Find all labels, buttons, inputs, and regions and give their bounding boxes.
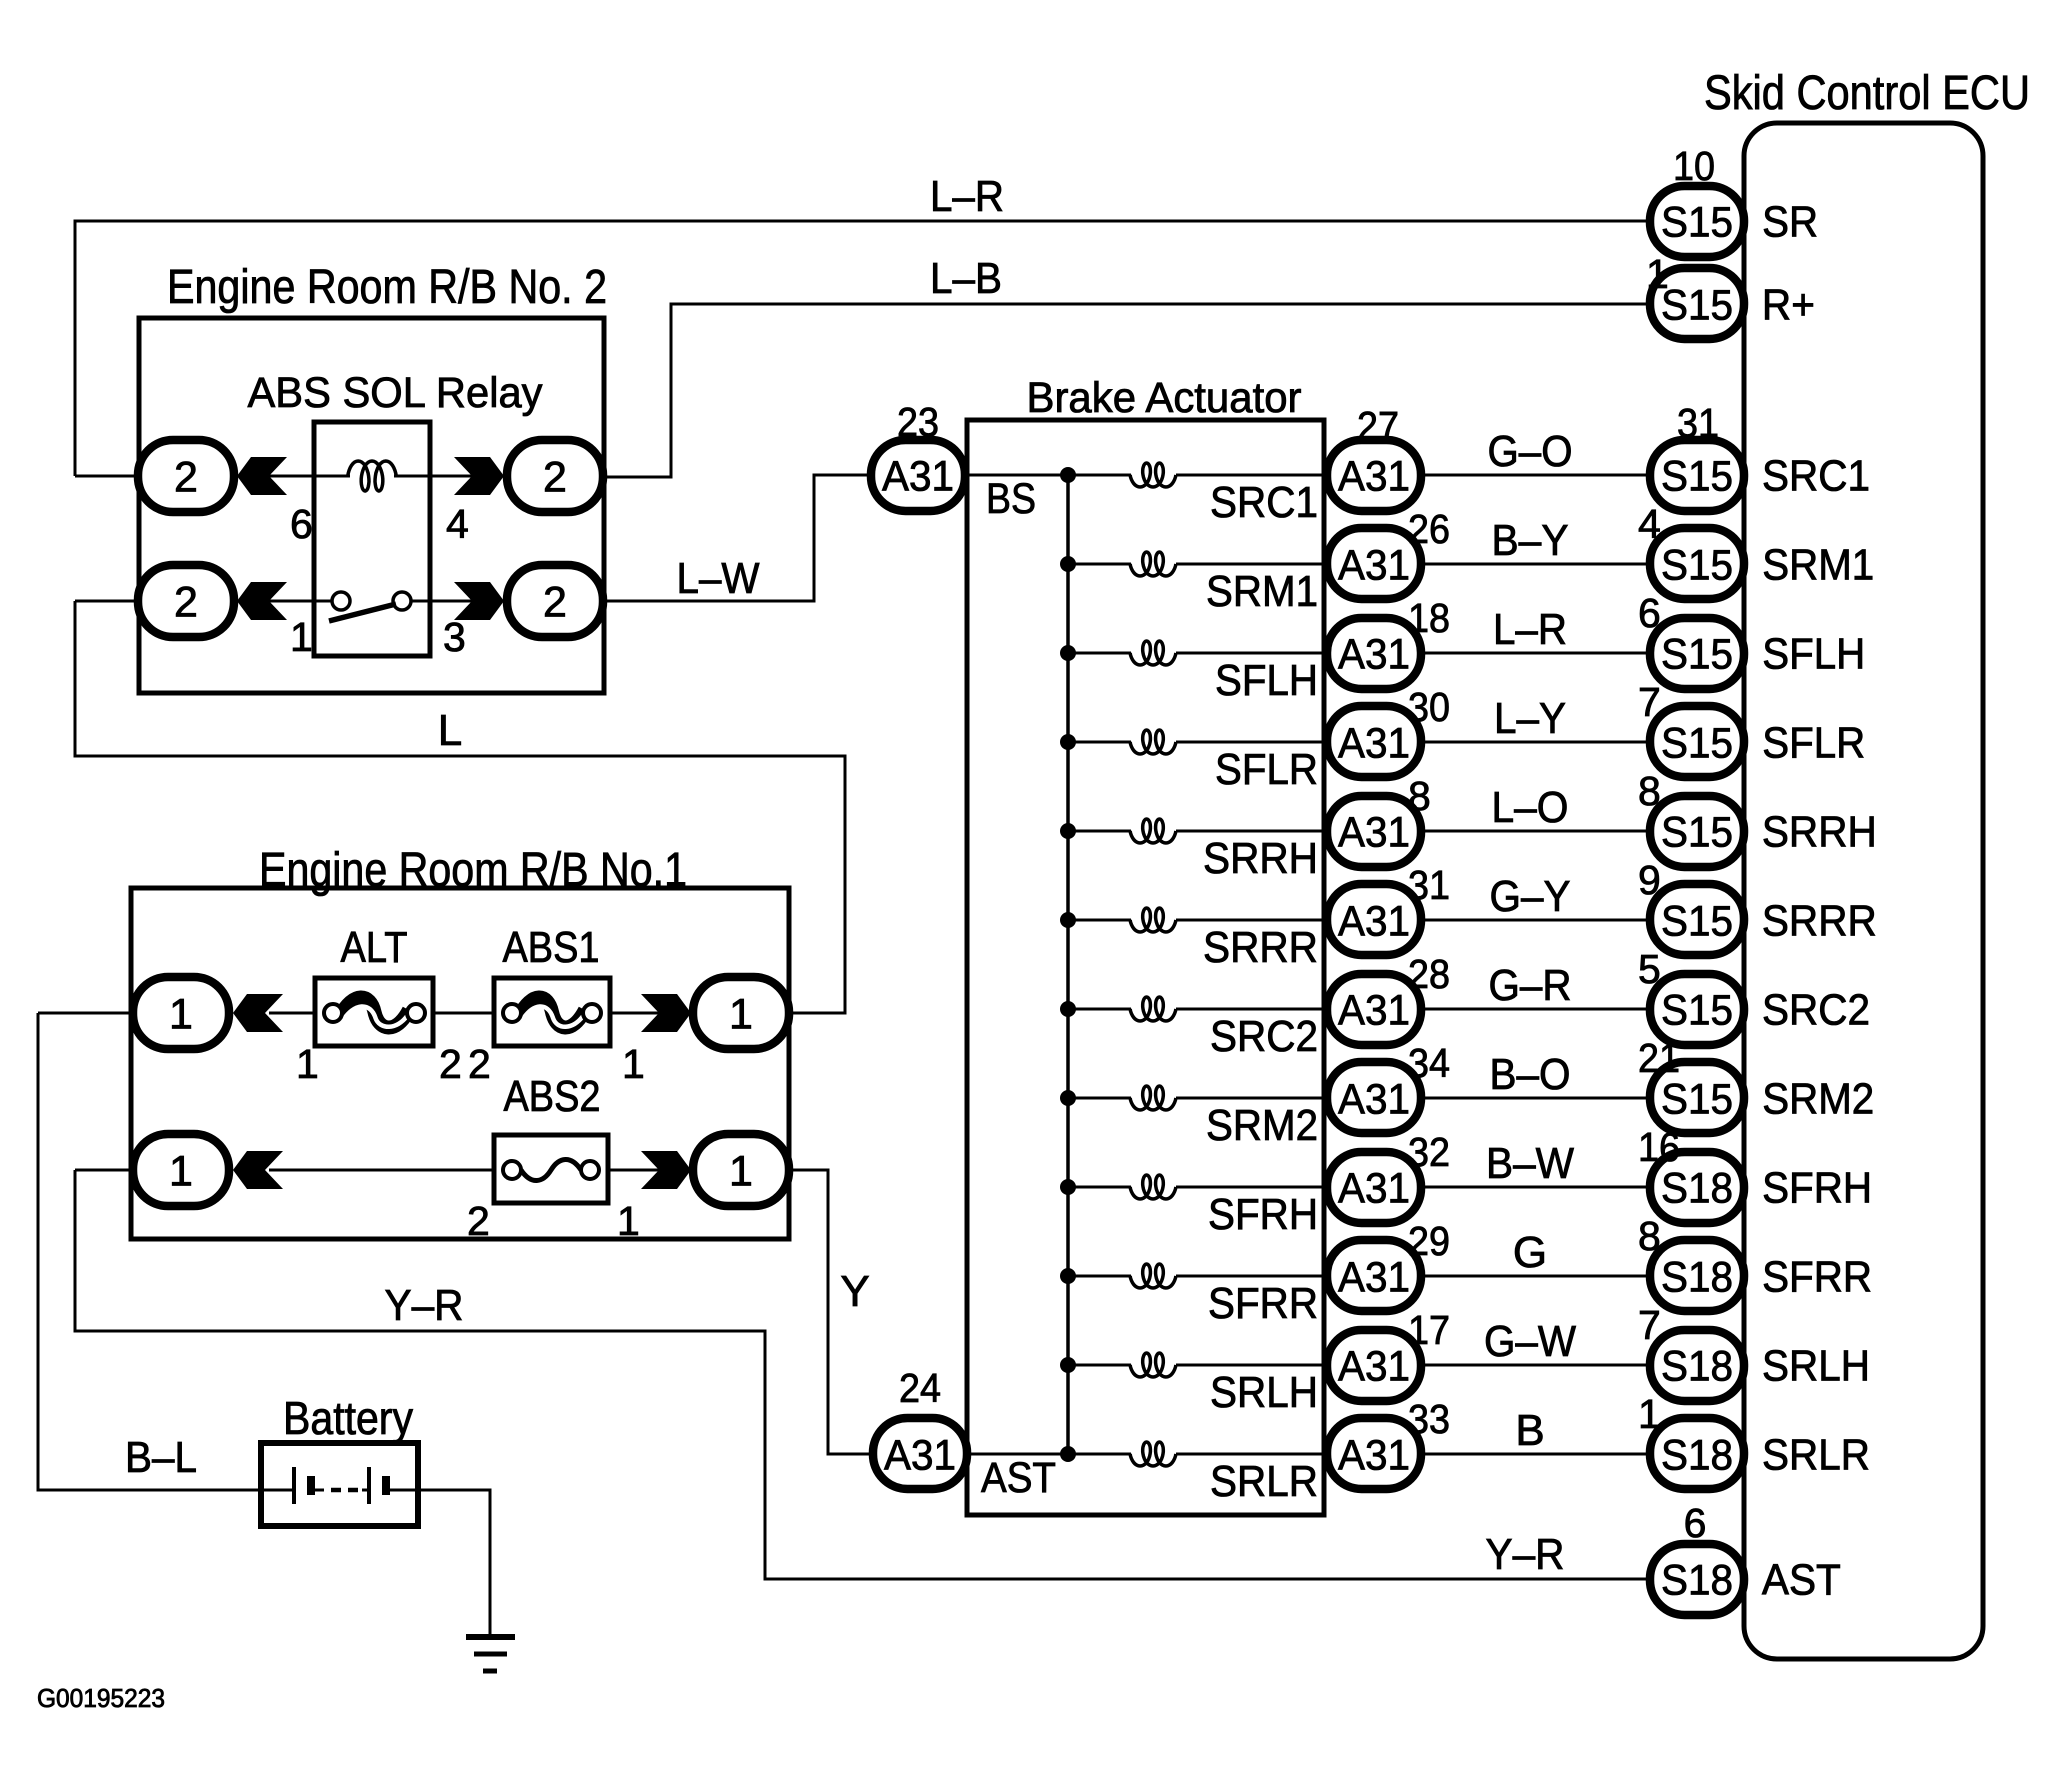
svg-text:A31: A31 <box>1338 541 1410 589</box>
svg-text:2: 2 <box>174 453 198 501</box>
svg-text:10: 10 <box>1673 143 1715 189</box>
svg-text:6: 6 <box>290 501 313 547</box>
svg-text:S18: S18 <box>1661 1342 1733 1390</box>
svg-text:28: 28 <box>1408 951 1450 997</box>
svg-text:32: 32 <box>1408 1129 1450 1175</box>
svg-text:6: 6 <box>1638 590 1661 636</box>
svg-text:Battery: Battery <box>283 1392 413 1444</box>
svg-text:A31: A31 <box>884 1431 956 1479</box>
svg-text:A31: A31 <box>1338 808 1410 856</box>
svg-text:7: 7 <box>1638 1302 1661 1348</box>
svg-text:SFRR: SFRR <box>1762 1253 1872 1302</box>
svg-text:SFRH: SFRH <box>1762 1164 1872 1213</box>
svg-text:27: 27 <box>1357 403 1399 449</box>
svg-text:1: 1 <box>1638 1391 1661 1437</box>
svg-text:Y–R: Y–R <box>385 1281 464 1330</box>
svg-text:1: 1 <box>729 990 753 1038</box>
svg-text:1: 1 <box>622 1041 645 1087</box>
svg-text:1: 1 <box>296 1041 319 1087</box>
svg-text:3: 3 <box>443 614 466 660</box>
svg-text:17: 17 <box>1408 1307 1450 1353</box>
svg-text:A31: A31 <box>1338 1342 1410 1390</box>
svg-text:G–W: G–W <box>1484 1317 1576 1366</box>
svg-text:SRLH: SRLH <box>1210 1368 1318 1417</box>
svg-text:S15: S15 <box>1661 452 1733 500</box>
svg-text:SRRR: SRRR <box>1203 923 1318 972</box>
svg-text:L–O: L–O <box>1492 783 1569 832</box>
svg-text:2: 2 <box>468 1041 491 1087</box>
svg-text:B–O: B–O <box>1490 1050 1571 1099</box>
svg-text:SR: SR <box>1762 198 1818 247</box>
svg-text:SRLH: SRLH <box>1762 1342 1870 1391</box>
svg-text:24: 24 <box>899 1365 941 1411</box>
svg-text:ABS2: ABS2 <box>504 1072 601 1121</box>
svg-text:SFLH: SFLH <box>1215 656 1318 705</box>
svg-text:B: B <box>1515 1406 1544 1455</box>
svg-text:2: 2 <box>543 578 567 626</box>
svg-text:G–O: G–O <box>1488 427 1573 476</box>
svg-text:SFRR: SFRR <box>1208 1279 1318 1328</box>
svg-text:ALT: ALT <box>341 923 408 972</box>
svg-text:A31: A31 <box>882 452 954 500</box>
svg-text:4: 4 <box>1638 501 1661 547</box>
svg-text:23: 23 <box>897 399 939 445</box>
svg-text:Y: Y <box>840 1267 869 1316</box>
svg-text:A31: A31 <box>1338 986 1410 1034</box>
svg-text:2: 2 <box>543 453 567 501</box>
svg-text:A31: A31 <box>1338 630 1410 678</box>
svg-text:1: 1 <box>169 990 193 1038</box>
svg-text:SRC2: SRC2 <box>1210 1012 1318 1061</box>
svg-text:SRLR: SRLR <box>1210 1457 1318 1506</box>
svg-text:Skid Control ECU: Skid Control ECU <box>1704 67 2030 120</box>
svg-text:8: 8 <box>1638 1213 1661 1259</box>
svg-text:S15: S15 <box>1661 198 1733 246</box>
svg-text:SRRH: SRRH <box>1203 834 1318 883</box>
svg-text:SRM2: SRM2 <box>1762 1075 1874 1124</box>
svg-text:BS: BS <box>986 475 1036 523</box>
svg-text:L–R: L–R <box>1493 605 1567 654</box>
svg-text:S15: S15 <box>1661 541 1733 589</box>
svg-text:S15: S15 <box>1661 1075 1733 1123</box>
svg-text:G–Y: G–Y <box>1490 872 1571 921</box>
svg-text:SRC1: SRC1 <box>1762 452 1870 501</box>
svg-text:SFLR: SFLR <box>1762 719 1865 768</box>
svg-text:A31: A31 <box>1338 1164 1410 1212</box>
svg-text:SRM1: SRM1 <box>1762 541 1874 590</box>
svg-text:4: 4 <box>446 501 469 547</box>
svg-text:ABS1: ABS1 <box>503 923 600 972</box>
svg-text:SRRR: SRRR <box>1762 897 1877 946</box>
svg-text:B–Y: B–Y <box>1492 516 1569 565</box>
svg-text:2: 2 <box>439 1041 462 1087</box>
svg-text:A31: A31 <box>1338 719 1410 767</box>
svg-text:S15: S15 <box>1661 281 1733 329</box>
svg-text:26: 26 <box>1408 506 1450 552</box>
svg-text:L–W: L–W <box>677 554 760 603</box>
svg-text:2: 2 <box>467 1198 490 1244</box>
svg-text:1: 1 <box>290 614 313 660</box>
svg-text:S15: S15 <box>1661 719 1733 767</box>
svg-text:31: 31 <box>1408 862 1450 908</box>
svg-text:30: 30 <box>1408 684 1450 730</box>
svg-text:9: 9 <box>1638 857 1661 903</box>
svg-text:S18: S18 <box>1661 1431 1733 1479</box>
svg-text:21: 21 <box>1638 1035 1680 1081</box>
svg-text:29: 29 <box>1408 1218 1450 1264</box>
svg-text:SRM1: SRM1 <box>1206 567 1318 616</box>
svg-text:SRLR: SRLR <box>1762 1431 1870 1480</box>
svg-text:G00195223: G00195223 <box>37 1683 165 1713</box>
svg-text:ABS SOL Relay: ABS SOL Relay <box>248 369 543 417</box>
svg-text:L–B: L–B <box>930 254 1002 303</box>
svg-text:S18: S18 <box>1661 1164 1733 1212</box>
svg-text:S18: S18 <box>1661 1253 1733 1301</box>
svg-text:1: 1 <box>617 1198 640 1244</box>
svg-text:34: 34 <box>1408 1040 1450 1086</box>
svg-text:A31: A31 <box>1338 897 1410 945</box>
svg-text:8: 8 <box>1408 773 1431 819</box>
svg-text:5: 5 <box>1638 946 1661 992</box>
svg-text:S15: S15 <box>1661 630 1733 678</box>
svg-text:SFLR: SFLR <box>1215 745 1318 794</box>
svg-text:AST: AST <box>1762 1556 1841 1605</box>
svg-text:SFRH: SFRH <box>1208 1190 1318 1239</box>
svg-text:SRC1: SRC1 <box>1210 478 1318 527</box>
svg-text:Engine Room R/B No. 2: Engine Room R/B No. 2 <box>167 261 607 314</box>
svg-text:G: G <box>1513 1228 1547 1277</box>
svg-text:A31: A31 <box>1338 1253 1410 1301</box>
svg-text:B–W: B–W <box>1486 1139 1574 1188</box>
svg-text:SRRH: SRRH <box>1762 808 1877 857</box>
svg-text:R+: R+ <box>1762 281 1815 330</box>
svg-text:Brake Actuator: Brake Actuator <box>1027 374 1302 422</box>
svg-text:S15: S15 <box>1661 986 1733 1034</box>
svg-text:S15: S15 <box>1661 808 1733 856</box>
svg-text:1: 1 <box>1646 251 1669 297</box>
svg-text:A31: A31 <box>1338 1075 1410 1123</box>
svg-text:1: 1 <box>729 1147 753 1195</box>
svg-text:AST: AST <box>981 1454 1056 1502</box>
svg-text:SRM2: SRM2 <box>1206 1101 1318 1150</box>
svg-text:SRC2: SRC2 <box>1762 986 1870 1035</box>
svg-text:L: L <box>438 706 462 755</box>
svg-text:33: 33 <box>1408 1396 1450 1442</box>
svg-text:G–R: G–R <box>1489 961 1572 1010</box>
svg-text:A31: A31 <box>1338 452 1410 500</box>
svg-text:SFLH: SFLH <box>1762 630 1865 679</box>
svg-text:L–R: L–R <box>930 172 1004 221</box>
svg-text:S15: S15 <box>1661 897 1733 945</box>
svg-text:B–L: B–L <box>125 1433 197 1482</box>
svg-text:Y–R: Y–R <box>1486 1530 1565 1579</box>
svg-text:6: 6 <box>1684 1500 1707 1546</box>
svg-text:7: 7 <box>1638 679 1661 725</box>
svg-text:1: 1 <box>169 1147 193 1195</box>
svg-text:S18: S18 <box>1661 1556 1733 1604</box>
svg-text:8: 8 <box>1638 768 1661 814</box>
svg-text:18: 18 <box>1408 595 1450 641</box>
svg-text:31: 31 <box>1677 400 1719 446</box>
svg-text:A31: A31 <box>1338 1431 1410 1479</box>
svg-text:2: 2 <box>174 578 198 626</box>
svg-text:L–Y: L–Y <box>1494 694 1566 743</box>
svg-text:16: 16 <box>1638 1124 1680 1170</box>
